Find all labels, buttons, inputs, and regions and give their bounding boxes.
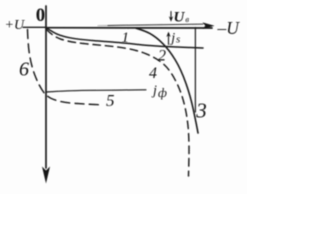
svg-text:3: 3 [195, 99, 207, 123]
svg-text:1: 1 [122, 30, 130, 46]
svg-text:2: 2 [158, 48, 166, 65]
svg-text:j: j [169, 31, 175, 46]
svg-text:в: в [185, 14, 189, 24]
svg-text:U: U [174, 10, 186, 26]
svg-text:6: 6 [19, 59, 29, 81]
svg-text:j: j [151, 84, 157, 99]
svg-text:+U: +U [5, 18, 25, 33]
svg-text:4: 4 [149, 65, 157, 82]
svg-text:ф: ф [158, 86, 167, 100]
svg-text:s: s [176, 34, 180, 46]
svg-text:5: 5 [106, 91, 115, 110]
svg-text:0: 0 [36, 5, 46, 26]
svg-text:–U: –U [217, 18, 241, 38]
